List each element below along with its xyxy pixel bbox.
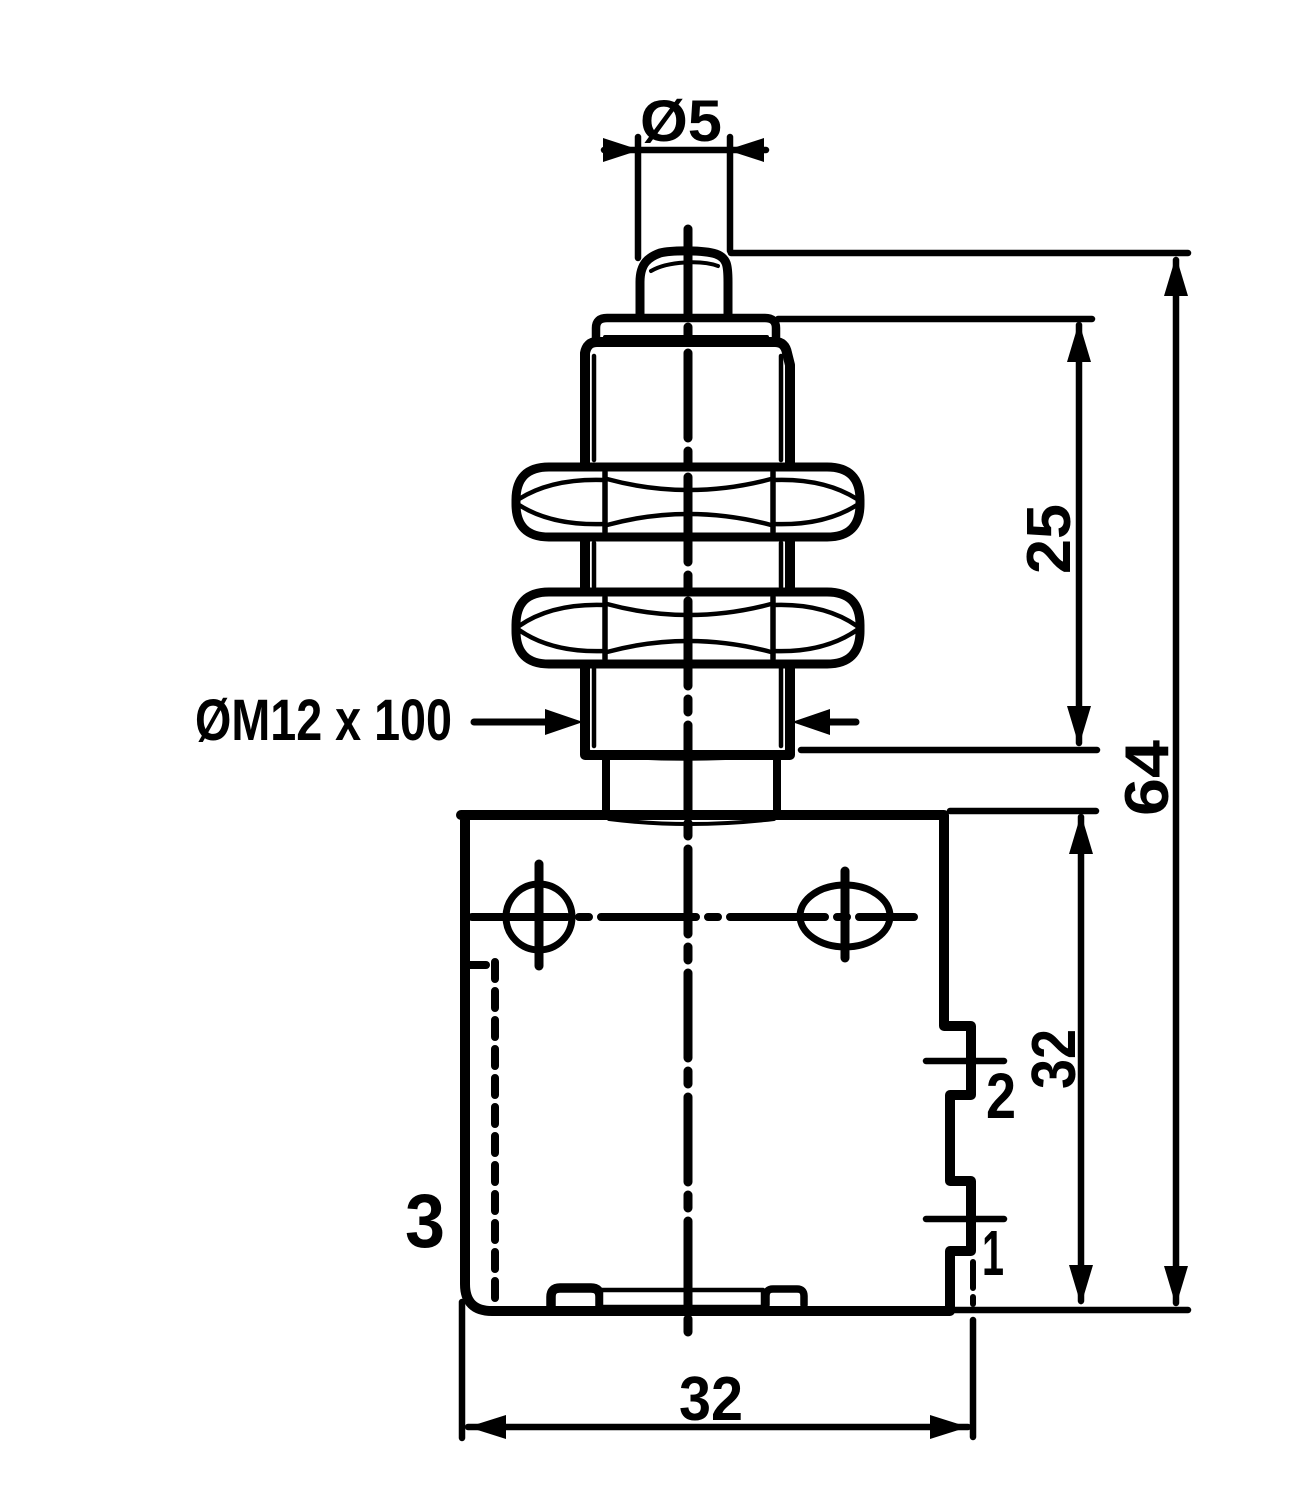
svg-text:2: 2 [986, 1060, 1016, 1132]
extension line bottom shared (64/32) [953, 1307, 1188, 1314]
plunger pin tip [640, 251, 728, 318]
bottom recess plate [601, 1290, 763, 1307]
arrowhead 32r bottom [1069, 1265, 1093, 1305]
arrowhead M12 right [792, 709, 830, 735]
threaded shaft body M12 [585, 342, 790, 755]
dim Ø5 extension left [635, 137, 642, 258]
extension line 25 top [778, 316, 1092, 323]
extension line 25 bottom [801, 747, 1097, 754]
arrowhead 25 top [1067, 322, 1091, 362]
cap washer [596, 318, 776, 343]
mounting hole left [506, 884, 572, 950]
arrowhead 64 top [1164, 256, 1188, 296]
svg-text:ØM12 x 100: ØM12 x 100 [195, 688, 452, 753]
pin tip chamfer line [651, 262, 718, 271]
terminal 2 screw line [926, 1058, 1004, 1065]
arrowhead 25 bottom [1067, 706, 1091, 746]
plunger pin neck (below shaft) [606, 752, 777, 816]
dim line 32 bottom [468, 1424, 968, 1431]
arrowhead 32r top [1069, 814, 1093, 854]
bottom notch [766, 1289, 804, 1305]
terminal 1 screw line [926, 1216, 1004, 1223]
bottom dim extension left [459, 1302, 466, 1438]
label M12 arrow left [474, 719, 548, 726]
hex nut N2 [516, 592, 860, 664]
hidden edge dashed vertical [491, 962, 499, 1305]
dim line 32 right [1078, 817, 1085, 1301]
cap inner line [605, 335, 767, 339]
svg-text:32: 32 [1020, 1029, 1089, 1089]
dim Ø5 extension right [727, 137, 734, 251]
svg-text:32: 32 [679, 1365, 743, 1434]
shaft chamfer line left [592, 356, 597, 746]
svg-text:64: 64 [1113, 739, 1182, 816]
hole crosshair left [535, 864, 544, 966]
extension line top (64) [731, 250, 1188, 257]
hole crosshair right [841, 871, 850, 958]
terminal 1 dashed axis [970, 1262, 976, 1304]
switch housing body [461, 815, 971, 1311]
label M12 arrow right tail [828, 719, 856, 726]
arrowhead 32b left [468, 1415, 506, 1439]
arrowhead 64 bottom [1164, 1266, 1188, 1306]
arrowhead Ø5 left [603, 138, 640, 162]
hidden edge dashed horizontal [469, 961, 495, 969]
svg-text:1: 1 [982, 1217, 1004, 1289]
mounting hole right [800, 885, 890, 947]
holes axis dash-dot line [472, 913, 914, 921]
arrowhead M12 left [545, 709, 583, 735]
svg-text:Ø5: Ø5 [640, 89, 722, 154]
bottom dim extension right [970, 1320, 977, 1437]
center line vertical dash-dot [684, 229, 693, 1341]
shaft chamfer line right [779, 356, 784, 746]
svg-text:25: 25 [1015, 504, 1084, 574]
shaft shoulder arc [588, 753, 787, 758]
bottom bump left [551, 1288, 600, 1306]
neck under arc [609, 819, 774, 824]
svg-text:3: 3 [405, 1179, 445, 1264]
dim Ø5 line [604, 147, 766, 154]
arrowhead 32b right [930, 1415, 968, 1439]
hex nut N1 [516, 467, 860, 537]
dim line 64 [1173, 260, 1180, 1303]
arrowhead Ø5 right [727, 138, 764, 162]
extension line 32 top [950, 808, 1096, 815]
dim line 25 [1076, 325, 1083, 743]
